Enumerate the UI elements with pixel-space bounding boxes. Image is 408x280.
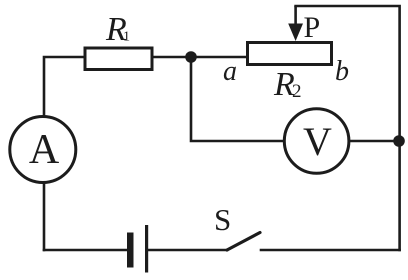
wire battery to switch <box>148 249 227 252</box>
svg-text:V: V <box>303 119 332 164</box>
voltmeter V1 <box>284 109 349 174</box>
svg-text:b: b <box>335 56 349 87</box>
node B (junction dot at right rail / voltmeter) <box>393 135 405 147</box>
wire voltmeter right to right rail <box>349 140 400 143</box>
svg-text:1: 1 <box>123 30 130 45</box>
wire R1 right to R2 left (through node) <box>153 56 247 59</box>
wire bottom-left to battery <box>44 249 127 252</box>
potentiometer R2 body <box>248 43 332 65</box>
svg-text:A: A <box>29 127 60 173</box>
wire ammeter bottom to bottom rail <box>43 183 46 250</box>
switch S blade <box>227 233 260 251</box>
battery cell (positive long thin plate) <box>145 225 148 273</box>
node A (junction dot after R1) <box>185 51 197 63</box>
svg-text:a: a <box>223 56 237 87</box>
ammeter A1 <box>10 117 76 183</box>
wire top-left horizontal (corner to R1 left) <box>44 57 84 117</box>
battery cell (negative short thick plate) <box>127 233 134 268</box>
svg-text:P: P <box>304 11 321 44</box>
svg-text:2: 2 <box>292 81 302 102</box>
wire node down to voltmeter left <box>191 57 285 141</box>
wire right vertical (top corner down to bottom-right corner) <box>296 6 400 250</box>
wiper arrow P of R2 <box>288 6 303 41</box>
wire switch to bottom-right corner <box>261 249 400 252</box>
svg-text:S: S <box>214 202 231 237</box>
resistor R1 <box>85 48 152 70</box>
